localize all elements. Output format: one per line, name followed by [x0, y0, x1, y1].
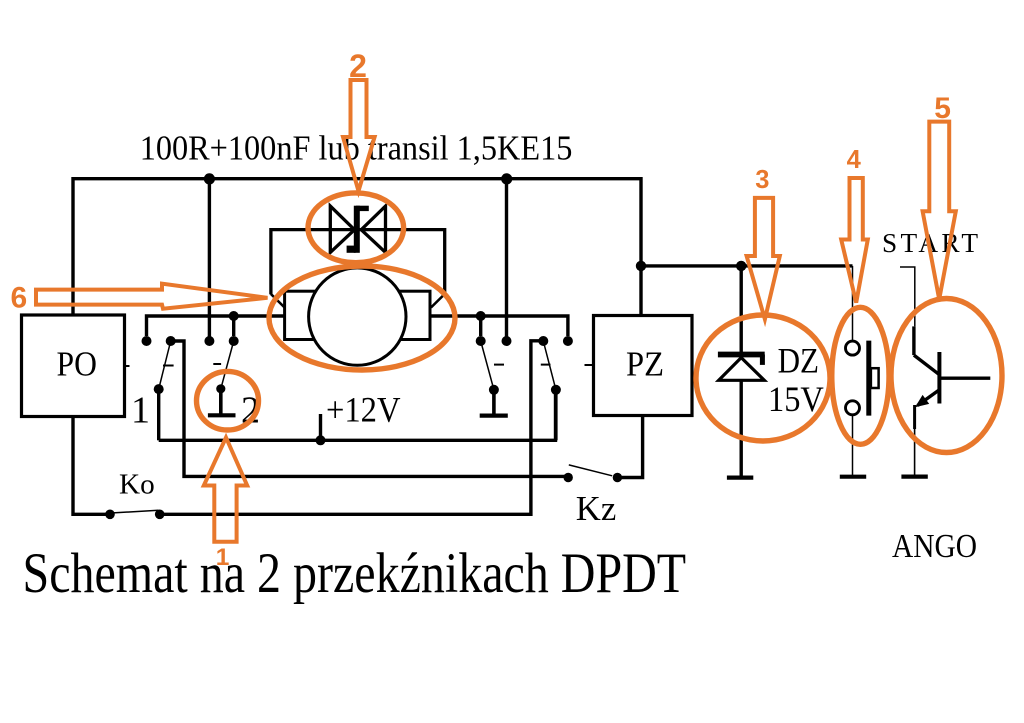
svg-text:15V: 15V	[768, 379, 824, 419]
svg-text:3: 3	[755, 166, 769, 194]
svg-text:ANGO: ANGO	[892, 528, 977, 565]
svg-text:1: 1	[216, 544, 230, 571]
svg-text:+12V: +12V	[326, 390, 401, 430]
svg-text:Schemat na 2 przekźnikach DPDT: Schemat na 2 przekźnikach DPDT	[23, 542, 687, 605]
svg-text:Kz: Kz	[576, 488, 617, 528]
svg-text:6: 6	[11, 281, 28, 314]
svg-text:PO: PO	[57, 344, 97, 383]
svg-text:1: 1	[131, 390, 150, 432]
svg-text:4: 4	[847, 146, 862, 174]
svg-text:Ko: Ko	[119, 468, 155, 500]
svg-text:5: 5	[934, 92, 951, 125]
svg-text:2: 2	[349, 48, 367, 84]
svg-text:PZ: PZ	[626, 344, 664, 383]
svg-text:100R+100nF lub transil 1,5KE15: 100R+100nF lub transil 1,5KE15	[140, 129, 573, 168]
svg-text:DZ: DZ	[778, 341, 819, 381]
